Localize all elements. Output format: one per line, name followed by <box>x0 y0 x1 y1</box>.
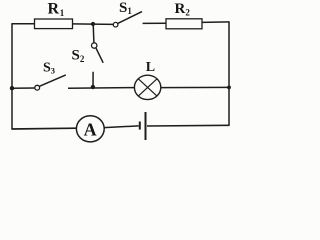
wire lamp to right vertical <box>161 86 229 88</box>
ammeter A body <box>76 116 104 142</box>
node junction middle-right <box>227 86 231 90</box>
wire left vertical <box>11 24 13 129</box>
wire bottom-left to ammeter <box>11 127 76 130</box>
wire top-left to R1 <box>11 23 34 25</box>
wire right vertical <box>228 22 230 126</box>
lamp L body <box>134 75 160 99</box>
wire S2 lower stub <box>92 72 94 88</box>
switch S2 pivot <box>92 43 97 48</box>
wire S3 fixed contact to lamp <box>68 87 135 90</box>
battery negative plate (short) <box>139 122 141 130</box>
switch S3 pivot <box>35 85 40 90</box>
lamp L cross stroke 1 <box>138 79 157 96</box>
svg-text:R1: R1 <box>48 1 65 19</box>
wire S2 upper lead <box>92 24 95 43</box>
wire R1 to S1 <box>73 23 114 26</box>
wire middle-left from junction to S3 <box>11 87 35 89</box>
battery positive plate (long) <box>145 112 147 140</box>
node junction middle (S2 bottom tap) <box>91 85 95 89</box>
svg-text:L: L <box>146 60 155 75</box>
node junction top (S2 tap) <box>91 22 95 26</box>
wire ammeter to battery <box>104 126 139 128</box>
svg-text:S2: S2 <box>72 48 85 64</box>
switch S3 blade <box>39 75 65 86</box>
wire battery to bottom-right corner <box>147 124 230 127</box>
svg-text:R2: R2 <box>175 1 191 17</box>
svg-text:A: A <box>84 119 97 139</box>
resistor R1 <box>35 19 73 29</box>
wire R2 to top-right corner <box>202 21 230 24</box>
svg-text:S3: S3 <box>43 60 55 75</box>
switch S1 blade <box>118 12 142 24</box>
svg-text:S1: S1 <box>119 0 132 16</box>
wire S1 fixed contact to R2 <box>143 22 166 24</box>
resistor R2 <box>166 19 202 29</box>
node junction middle-left <box>10 86 14 90</box>
switch S2 blade <box>96 48 103 63</box>
switch S1 pivot <box>113 22 118 27</box>
lamp L cross stroke 2 <box>138 79 157 96</box>
